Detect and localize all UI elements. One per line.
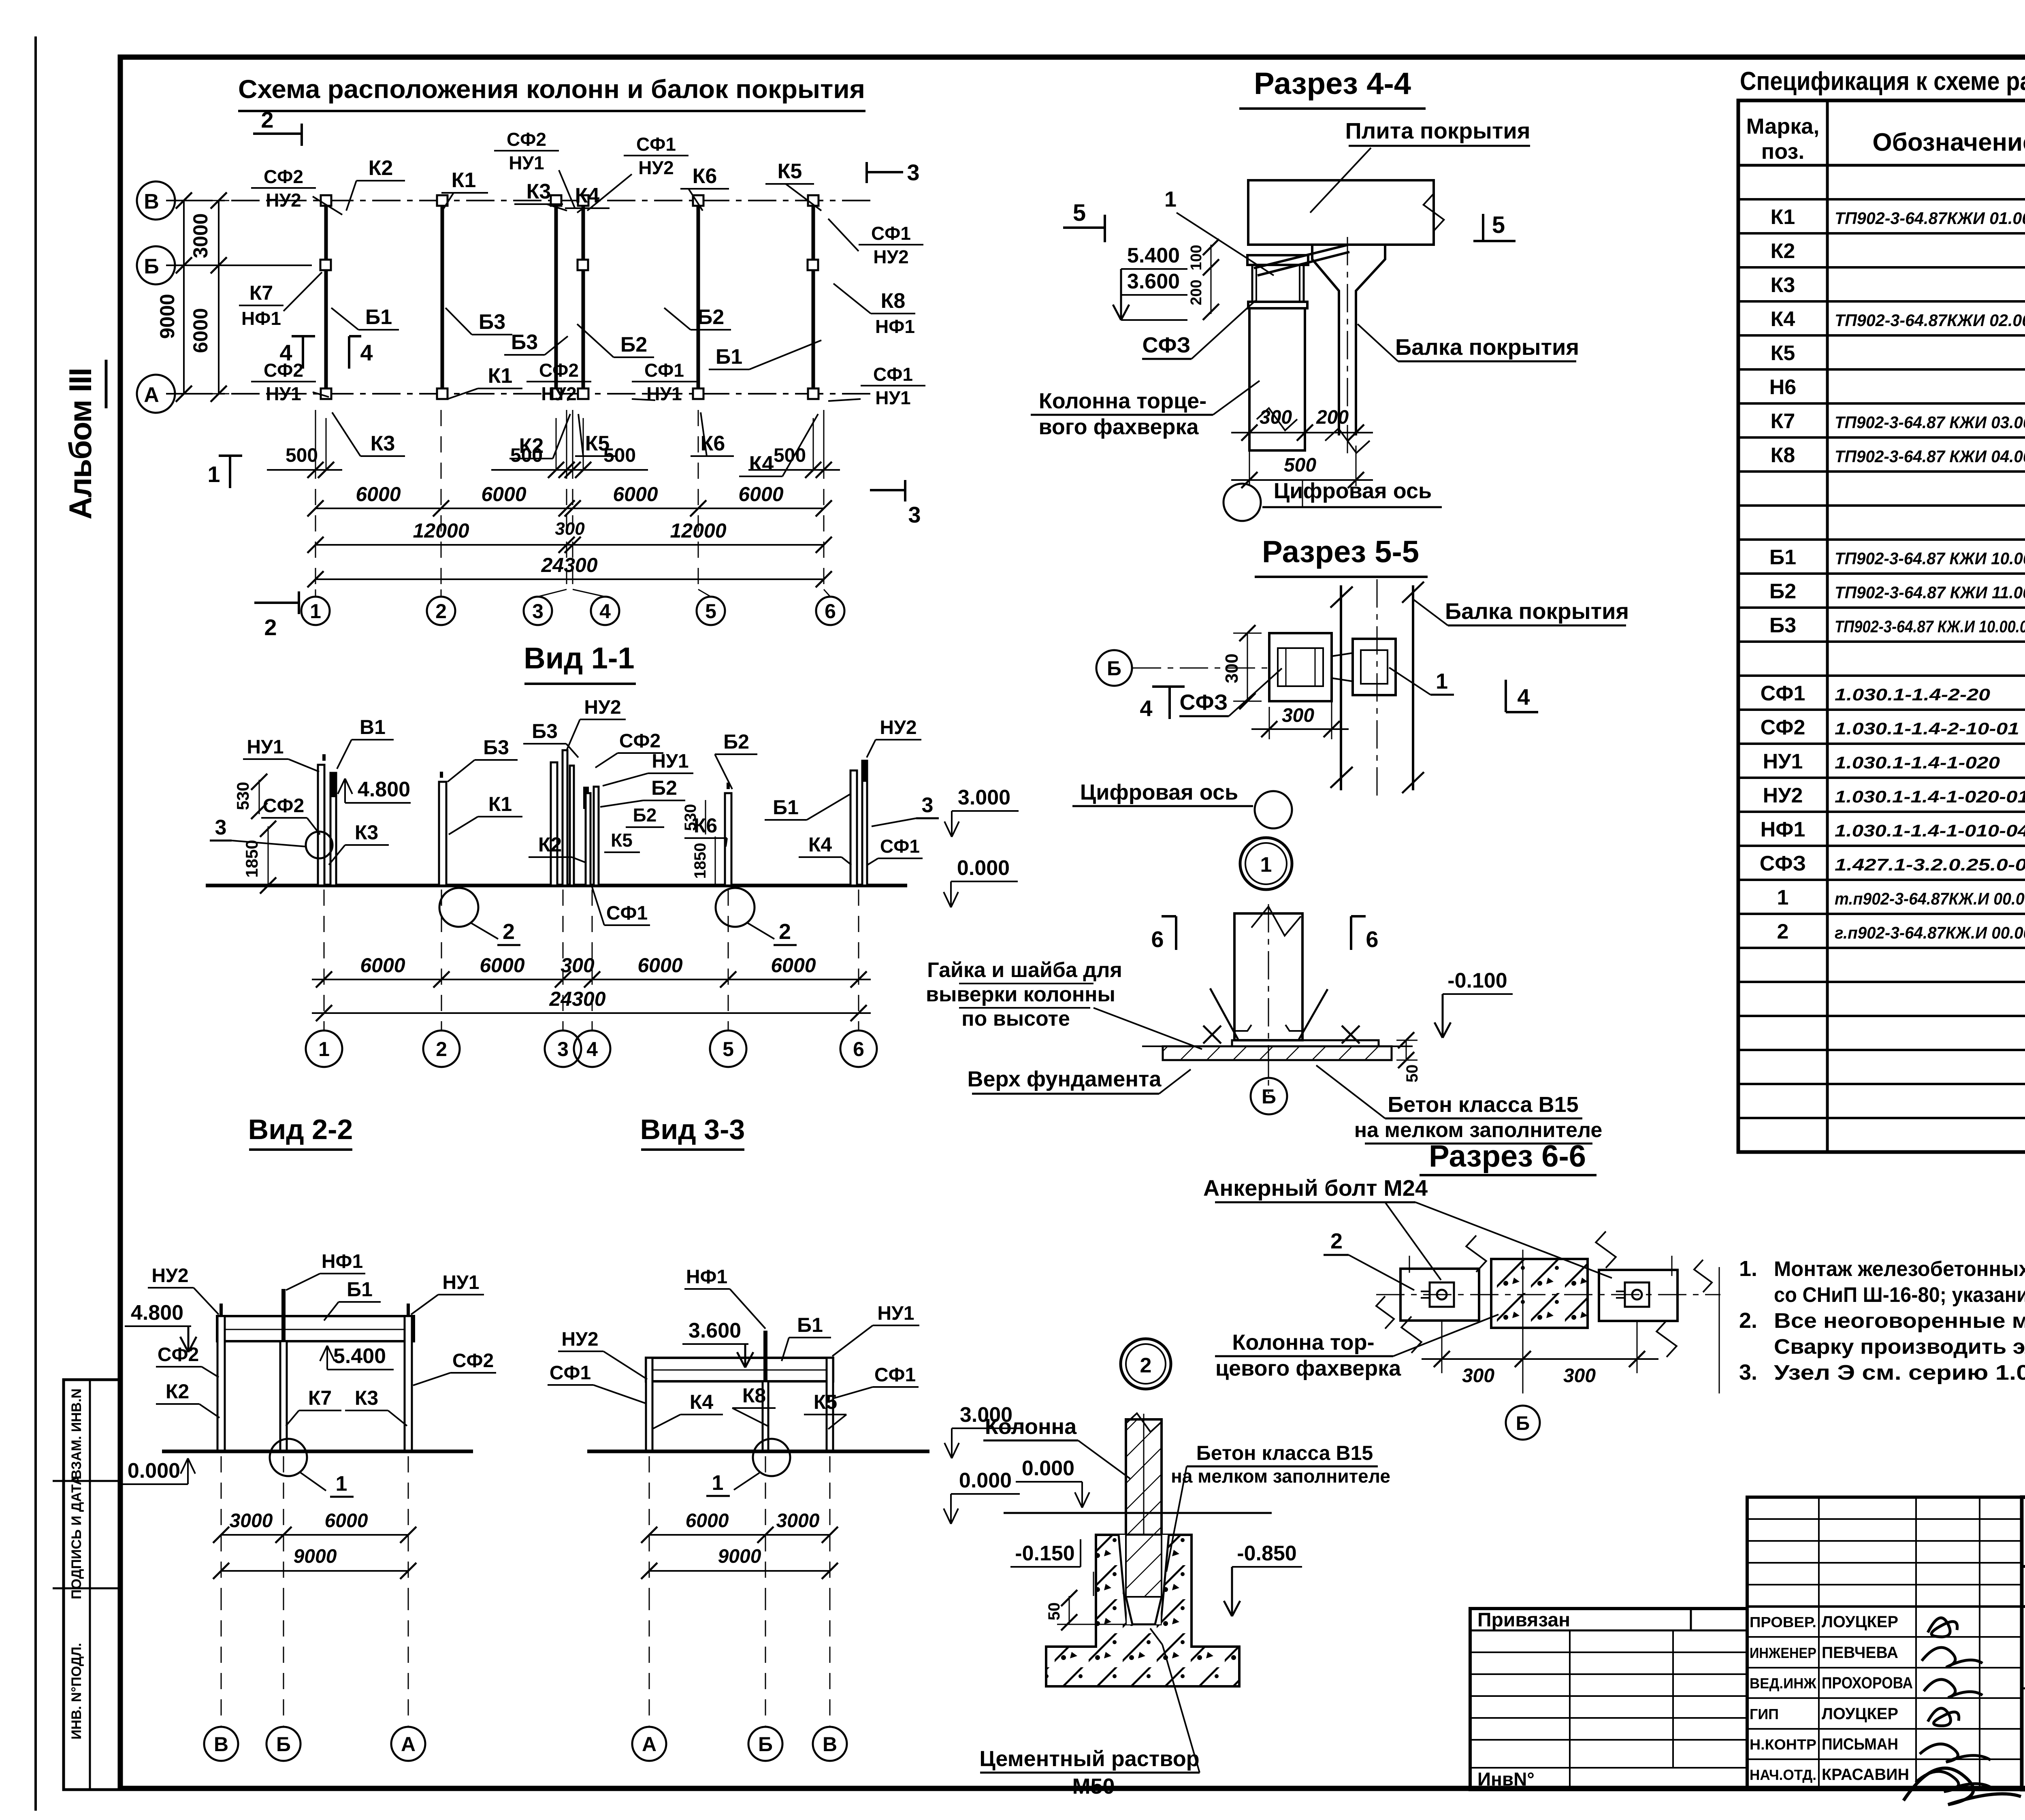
svg-text:на мелком заполнителе: на мелком заполнителе: [1354, 1118, 1603, 1142]
svg-text:Б2: Б2: [633, 804, 657, 826]
svg-text:24300: 24300: [541, 554, 597, 576]
svg-text:К1: К1: [1771, 205, 1795, 229]
svg-text:6000: 6000: [325, 1510, 368, 1532]
svg-text:НФ1: НФ1: [241, 308, 281, 329]
svg-text:1: 1: [336, 1472, 347, 1496]
svg-text:Б: Б: [276, 1733, 291, 1756]
svg-text:НАЧ.ОТД.: НАЧ.ОТД.: [1750, 1767, 1816, 1783]
svg-text:НУ1: НУ1: [1763, 750, 1803, 773]
svg-text:ПРОХОРОВА: ПРОХОРОВА: [1822, 1674, 1913, 1692]
svg-text:СФ2: СФ2: [264, 166, 303, 187]
svg-text:3.600: 3.600: [688, 1319, 741, 1342]
svg-text:200: 200: [1316, 407, 1349, 428]
svg-text:вого фахверка: вого фахверка: [1038, 415, 1199, 439]
svg-text:Плита покрытия: Плита покрытия: [1345, 118, 1530, 143]
svg-text:Бетон класса В15: Бетон класса В15: [1196, 1442, 1373, 1464]
svg-text:Альбом III: Альбом III: [62, 368, 98, 519]
svg-text:К3: К3: [371, 432, 395, 455]
svg-text:2: 2: [264, 614, 277, 640]
svg-text:Сварку производить электрода: Сварку производить электродами типа Э42Я…: [1774, 1335, 2025, 1359]
svg-text:К1: К1: [452, 169, 476, 192]
svg-text:ПИСЬМАН: ПИСЬМАН: [1822, 1735, 1898, 1753]
svg-text:2: 2: [435, 600, 447, 623]
svg-text:Б1: Б1: [773, 796, 799, 819]
svg-text:К6: К6: [693, 164, 717, 188]
svg-text:ПОДПИСЬ И ДАТА: ПОДПИСЬ И ДАТА: [69, 1475, 84, 1599]
svg-text:СФ2: СФ2: [539, 360, 579, 381]
svg-text:4: 4: [1517, 684, 1530, 710]
svg-text:4.800: 4.800: [131, 1301, 183, 1325]
svg-text:НУ1: НУ1: [509, 152, 544, 173]
svg-text:К5: К5: [778, 160, 802, 183]
svg-text:Б: Б: [144, 255, 159, 278]
svg-text:Цифровая ось: Цифровая ось: [1080, 780, 1238, 804]
svg-text:2: 2: [436, 1038, 447, 1060]
svg-text:Н.КОНТР: Н.КОНТР: [1750, 1736, 1816, 1753]
svg-text:НУ1: НУ1: [247, 736, 283, 758]
svg-text:Цементный раствор: Цементный раствор: [979, 1747, 1199, 1771]
svg-text:9000: 9000: [156, 294, 179, 339]
svg-text:К2: К2: [369, 156, 393, 180]
svg-text:А: А: [642, 1733, 657, 1756]
svg-text:0.000: 0.000: [959, 1469, 1012, 1492]
svg-text:ВЗАМ. ИНВ.N: ВЗАМ. ИНВ.N: [69, 1389, 84, 1480]
svg-text:Привязан: Привязан: [1477, 1609, 1570, 1631]
svg-text:2.: 2.: [1739, 1308, 1757, 1333]
svg-text:НФ1: НФ1: [322, 1251, 363, 1272]
svg-text:ИНЖЕНЕР: ИНЖЕНЕР: [1750, 1645, 1816, 1661]
svg-text:НФ1: НФ1: [875, 316, 915, 337]
svg-text:К8: К8: [1771, 444, 1795, 467]
svg-text:1.030.1-1.4-1-020: 1.030.1-1.4-1-020: [1835, 753, 2000, 772]
svg-text:2: 2: [1140, 1354, 1152, 1377]
svg-text:1: 1: [310, 600, 321, 623]
svg-text:6000: 6000: [356, 483, 401, 506]
svg-text:300: 300: [1260, 407, 1292, 428]
svg-text:6: 6: [825, 600, 836, 623]
svg-text:-0.850: -0.850: [1237, 1542, 1296, 1565]
svg-text:3.000: 3.000: [958, 786, 1010, 809]
svg-text:СФЗ: СФЗ: [1143, 333, 1191, 357]
svg-text:Узел Э см. серию 1.030. 1-1.: Узел Э см. серию 1.030. 1-1. 3-3-040.: [1774, 1361, 2025, 1385]
svg-text:1: 1: [207, 461, 220, 487]
svg-text:1: 1: [1777, 886, 1789, 909]
svg-text:Б3: Б3: [1769, 614, 1796, 637]
svg-text:1: 1: [1436, 669, 1448, 693]
svg-text:НУ2: НУ2: [1763, 784, 1803, 807]
svg-text:4: 4: [599, 600, 611, 623]
svg-text:6000: 6000: [481, 483, 526, 506]
svg-text:50: 50: [1403, 1065, 1421, 1083]
svg-text:ТП902-3-64.87 КЖИ 04.00.00.00: ТП902-3-64.87 КЖИ 04.00.00.00: [1835, 447, 2025, 466]
svg-text:поз.: поз.: [1761, 139, 1805, 164]
svg-text:300: 300: [1282, 705, 1314, 726]
svg-text:В1: В1: [360, 716, 386, 738]
svg-text:цевого фахверка: цевого фахверка: [1215, 1356, 1401, 1380]
svg-text:В: В: [214, 1733, 228, 1756]
svg-text:3: 3: [215, 816, 227, 839]
svg-text:300: 300: [1563, 1365, 1596, 1387]
svg-text:Разрез 6-6: Разрез 6-6: [1429, 1139, 1586, 1174]
svg-text:Б1: Б1: [347, 1278, 373, 1301]
svg-text:на мелком заполнителе: на мелком заполнителе: [1171, 1466, 1390, 1487]
svg-text:ПЕВЧЕВА: ПЕВЧЕВА: [1822, 1644, 1898, 1662]
svg-text:1850: 1850: [691, 843, 709, 879]
svg-text:1850: 1850: [242, 840, 261, 877]
svg-text:3.: 3.: [1739, 1360, 1757, 1385]
svg-text:СФ2: СФ2: [507, 129, 546, 150]
svg-text:1.030.1-1.4-2-10-01: 1.030.1-1.4-2-10-01: [1835, 719, 2019, 738]
svg-text:1.030.1-1.4-2-20: 1.030.1-1.4-2-20: [1835, 685, 1990, 704]
svg-text:К3: К3: [1771, 273, 1795, 297]
svg-text:ТП902-3-64.87 КЖ.И 10.00.00.00: ТП902-3-64.87 КЖ.И 10.00.00.00-01: [1835, 617, 2025, 636]
svg-text:К1: К1: [488, 793, 512, 815]
svg-text:К4: К4: [808, 833, 832, 856]
svg-text:50: 50: [1045, 1602, 1063, 1621]
svg-text:К5: К5: [585, 432, 610, 455]
svg-text:Балка покрытия: Балка покрытия: [1445, 598, 1629, 624]
svg-text:24300: 24300: [549, 988, 605, 1010]
svg-text:по высоте: по высоте: [961, 1007, 1070, 1031]
svg-text:3.600: 3.600: [1127, 270, 1180, 293]
svg-text:К8: К8: [881, 289, 906, 313]
svg-text:Б: Б: [1262, 1085, 1276, 1108]
svg-text:6: 6: [853, 1038, 864, 1060]
svg-text:Б1: Б1: [365, 305, 392, 329]
svg-text:КРАСАВИН: КРАСАВИН: [1822, 1766, 1909, 1784]
svg-text:СФ1: СФ1: [550, 1362, 591, 1384]
svg-text:5: 5: [1073, 200, 1086, 226]
svg-text:К4: К4: [690, 1391, 714, 1413]
svg-text:К4: К4: [1771, 307, 1795, 331]
svg-text:Балка покрытия: Балка покрытия: [1395, 334, 1579, 360]
svg-text:Вид 2-2: Вид 2-2: [248, 1114, 353, 1145]
svg-text:ВЕД.ИНЖ: ВЕД.ИНЖ: [1750, 1675, 1816, 1692]
svg-text:НУ2: НУ2: [584, 697, 621, 718]
svg-text:ИНВ. N°ПОДЛ.: ИНВ. N°ПОДЛ.: [69, 1643, 84, 1740]
svg-text:6000: 6000: [738, 483, 783, 506]
svg-text:ТП902-3-64.87КЖИ 01.00.00.00: ТП902-3-64.87КЖИ 01.00.00.00: [1835, 209, 2025, 228]
svg-text:СФ2: СФ2: [263, 795, 304, 817]
svg-text:ЛОУЦКЕР: ЛОУЦКЕР: [1822, 1613, 1898, 1631]
svg-text:1: 1: [1164, 187, 1177, 211]
svg-text:Колонна тор-: Колонна тор-: [1232, 1330, 1374, 1355]
svg-text:4: 4: [586, 1038, 598, 1060]
svg-text:Монтаж железобетонных констр: Монтаж железобетонных конструкций осущес…: [1774, 1257, 2025, 1281]
svg-text:5: 5: [705, 600, 716, 623]
svg-text:СФ1: СФ1: [874, 1364, 916, 1386]
svg-text:3: 3: [908, 502, 921, 527]
svg-text:НУ1: НУ1: [875, 387, 910, 408]
svg-text:выверки колонны: выверки колонны: [926, 983, 1115, 1006]
svg-text:СФ1: СФ1: [636, 134, 676, 155]
svg-text:Верх фундамента: Верх фундамента: [968, 1067, 1162, 1091]
svg-text:К5: К5: [1771, 341, 1795, 365]
svg-text:К8: К8: [742, 1384, 766, 1407]
svg-text:6000: 6000: [480, 954, 524, 977]
svg-text:В: В: [144, 190, 159, 213]
svg-text:М50: М50: [1072, 1774, 1115, 1799]
svg-text:СФ1: СФ1: [873, 364, 913, 385]
svg-text:Б1: Б1: [716, 345, 742, 369]
svg-text:Б3: Б3: [479, 310, 505, 334]
svg-text:т.п902-3-64.87КЖ.И 00.00.00.02: т.п902-3-64.87КЖ.И 00.00.00.02: [1835, 889, 2025, 908]
svg-text:НФ1: НФ1: [1761, 818, 1805, 841]
svg-text:К4: К4: [749, 452, 774, 476]
svg-text:СФ1: СФ1: [1761, 682, 1805, 705]
svg-text:Б3: Б3: [511, 331, 538, 354]
svg-text:0.000: 0.000: [1022, 1457, 1074, 1480]
svg-text:СФ1: СФ1: [871, 223, 911, 244]
svg-text:Б2: Б2: [620, 333, 647, 356]
svg-text:ТП902-3-64.87 КЖИ 11.00.00.00: ТП902-3-64.87 КЖИ 11.00.00.00: [1835, 583, 2025, 602]
svg-text:Б3: Б3: [483, 736, 509, 759]
svg-text:3: 3: [557, 1038, 569, 1060]
svg-text:300: 300: [1462, 1365, 1494, 1387]
svg-text:НУ2: НУ2: [880, 717, 917, 738]
svg-text:К7: К7: [1771, 410, 1795, 433]
svg-text:6: 6: [1151, 926, 1164, 952]
svg-text:Схема расположения колонн и ба: Схема расположения колонн и балок покрыт…: [238, 75, 865, 104]
svg-text:Б2: Б2: [697, 305, 724, 329]
svg-text:ПРОВЕР.: ПРОВЕР.: [1750, 1614, 1816, 1630]
svg-text:Анкерный болт М24: Анкерный болт М24: [1203, 1175, 1428, 1201]
svg-text:СФ2: СФ2: [452, 1350, 494, 1372]
svg-text:ГИП: ГИП: [1750, 1706, 1779, 1722]
svg-text:Марка,: Марка,: [1746, 114, 1820, 139]
svg-text:1.: 1.: [1739, 1257, 1757, 1281]
svg-text:Б2: Б2: [723, 730, 749, 753]
svg-text:300: 300: [555, 519, 585, 539]
svg-text:-0.150: -0.150: [1015, 1542, 1074, 1565]
svg-text:Цифровая ось: Цифровая ось: [1274, 479, 1432, 503]
svg-text:Б2: Б2: [1769, 580, 1796, 603]
svg-text:Н6: Н6: [1769, 376, 1796, 399]
svg-text:К4: К4: [575, 184, 600, 207]
svg-text:6: 6: [1366, 926, 1378, 952]
svg-text:НУ2: НУ2: [541, 383, 576, 404]
svg-text:1: 1: [1260, 853, 1272, 877]
svg-text:Гайка и шайба для: Гайка и шайба для: [927, 958, 1122, 982]
svg-text:Колонна: Колонна: [985, 1415, 1077, 1439]
svg-text:НУ1: НУ1: [266, 383, 301, 404]
svg-text:Все неоговоренные монтажные: Все неоговоренные монтажные швы принимат…: [1774, 1309, 2025, 1333]
svg-text:3: 3: [907, 160, 919, 185]
svg-text:4.800: 4.800: [358, 778, 410, 801]
svg-text:СФ2: СФ2: [619, 730, 661, 752]
svg-text:К5: К5: [814, 1391, 837, 1413]
svg-text:Обозначение: Обозначение: [1872, 128, 2025, 156]
svg-text:Разрез 5-5: Разрез 5-5: [1262, 535, 1419, 569]
svg-text:6000: 6000: [360, 954, 405, 977]
svg-text:3000: 3000: [189, 213, 212, 258]
svg-text:А: А: [144, 383, 159, 407]
svg-text:0.000: 0.000: [957, 856, 1010, 880]
svg-text:Разрез 4-4: Разрез 4-4: [1254, 66, 1411, 101]
svg-text:4: 4: [1140, 696, 1152, 721]
svg-text:ТП902-3-64.87КЖИ 02.00.00.00: ТП902-3-64.87КЖИ 02.00.00.00: [1835, 311, 2025, 330]
svg-text:300: 300: [1222, 653, 1242, 683]
svg-text:Б1: Б1: [1769, 546, 1796, 569]
svg-text:9000: 9000: [294, 1546, 337, 1567]
svg-text:Б: Б: [1107, 657, 1121, 680]
svg-text:К3: К3: [355, 1387, 378, 1409]
svg-text:1: 1: [318, 1038, 330, 1060]
svg-text:К1: К1: [488, 364, 513, 388]
svg-text:К3: К3: [526, 180, 551, 203]
svg-text:Вид 3-3: Вид 3-3: [640, 1114, 745, 1145]
svg-text:1.427.1-3.2.0.25.0-01: 1.427.1-3.2.0.25.0-01: [1835, 855, 2025, 874]
svg-text:12000: 12000: [670, 519, 726, 542]
svg-text:6000: 6000: [637, 954, 682, 977]
svg-text:СФ2: СФ2: [264, 360, 303, 381]
svg-text:В: В: [823, 1733, 837, 1756]
svg-text:2: 2: [1777, 920, 1789, 943]
svg-text:Б1: Б1: [797, 1314, 823, 1336]
svg-text:Б3: Б3: [532, 720, 558, 743]
svg-text:Вид 1-1: Вид 1-1: [524, 641, 634, 675]
svg-text:СФЗ: СФЗ: [1760, 852, 1806, 875]
svg-text:5: 5: [723, 1038, 734, 1060]
svg-text:1.030.1-1.4-1-010-04: 1.030.1-1.4-1-010-04: [1835, 821, 2025, 840]
svg-text:К2: К2: [519, 434, 544, 458]
svg-text:2: 2: [261, 107, 273, 132]
svg-text:К2: К2: [1771, 239, 1795, 263]
svg-text:К7: К7: [249, 282, 273, 304]
svg-text:г.п902-3-64.87КЖ.И 00.00.00.01: г.п902-3-64.87КЖ.И 00.00.00.01: [1835, 923, 2025, 942]
svg-text:СФ2: СФ2: [1761, 716, 1805, 739]
svg-text:НУ2: НУ2: [561, 1329, 598, 1350]
svg-text:ИнвN°: ИнвN°: [1477, 1769, 1535, 1790]
svg-text:НУ2: НУ2: [151, 1265, 188, 1287]
svg-text:НУ1: НУ1: [652, 751, 688, 772]
svg-text:со СНиП Ш-16-80; указаниями се: со СНиП Ш-16-80; указаниями серий 1.423-…: [1774, 1283, 2025, 1307]
svg-text:НУ2: НУ2: [266, 190, 301, 211]
svg-text:3000: 3000: [230, 1510, 273, 1532]
svg-text:СФ1: СФ1: [880, 836, 920, 857]
svg-text:12000: 12000: [413, 519, 469, 542]
svg-text:5.400: 5.400: [1127, 244, 1180, 267]
svg-text:6000: 6000: [686, 1510, 729, 1532]
svg-text:9000: 9000: [718, 1546, 761, 1567]
svg-text:500: 500: [286, 445, 318, 466]
svg-text:СФЗ: СФЗ: [1180, 690, 1228, 715]
svg-text:Б: Б: [758, 1733, 773, 1756]
svg-text:2: 2: [503, 920, 515, 944]
svg-text:ТП902-3-64.87 КЖИ 10.00.00.00: ТП902-3-64.87 КЖИ 10.00.00.00: [1835, 549, 2025, 568]
svg-text:6000: 6000: [613, 483, 658, 506]
svg-text:200: 200: [1188, 280, 1205, 305]
svg-text:2: 2: [779, 920, 791, 944]
svg-text:К7: К7: [308, 1387, 332, 1409]
svg-text:6000: 6000: [189, 308, 212, 353]
svg-text:6000: 6000: [771, 954, 816, 977]
svg-text:К2: К2: [538, 833, 562, 856]
svg-text:1: 1: [712, 1471, 724, 1495]
svg-text:530: 530: [233, 782, 252, 810]
svg-text:0.000: 0.000: [128, 1459, 180, 1483]
svg-text:К5: К5: [611, 830, 633, 851]
svg-text:Б2: Б2: [651, 777, 677, 799]
svg-text:Спецификация к схеме располо: Спецификация к схеме расположения колонн…: [1740, 66, 2025, 96]
svg-text:100: 100: [1188, 245, 1205, 270]
svg-text:Бетон класса В15: Бетон класса В15: [1388, 1092, 1578, 1117]
svg-text:СФ2: СФ2: [158, 1344, 199, 1366]
svg-text:СФ1: СФ1: [606, 903, 648, 924]
svg-text:ТП902-3-64.87 КЖИ 03.00.00.00: ТП902-3-64.87 КЖИ 03.00.00.00: [1835, 413, 2025, 432]
svg-text:1.030.1-1.4-1-020-01: 1.030.1-1.4-1-020-01: [1835, 787, 2025, 806]
svg-text:4: 4: [360, 340, 373, 365]
svg-text:НУ2: НУ2: [638, 157, 674, 178]
svg-text:3000: 3000: [776, 1510, 820, 1532]
svg-text:НУ1: НУ1: [442, 1272, 479, 1293]
svg-text:СФ1: СФ1: [644, 360, 684, 381]
svg-text:-0.100: -0.100: [1447, 969, 1507, 992]
svg-text:Колонна торце-: Колонна торце-: [1039, 389, 1206, 413]
svg-text:А: А: [401, 1733, 416, 1756]
svg-text:ЛОУЦКЕР: ЛОУЦКЕР: [1822, 1705, 1898, 1723]
svg-text:3: 3: [532, 600, 544, 623]
svg-text:НФ1: НФ1: [686, 1266, 727, 1288]
svg-text:Б: Б: [1516, 1413, 1530, 1434]
svg-text:3: 3: [922, 794, 934, 817]
svg-text:НУ1: НУ1: [877, 1303, 914, 1324]
svg-text:5.400: 5.400: [333, 1344, 386, 1368]
svg-text:2: 2: [1330, 1229, 1343, 1253]
svg-text:500: 500: [1284, 454, 1316, 476]
svg-text:НУ1: НУ1: [646, 383, 682, 404]
svg-text:К6: К6: [694, 814, 717, 837]
svg-text:К2: К2: [166, 1380, 189, 1403]
svg-text:К3: К3: [355, 821, 378, 844]
svg-text:НУ2: НУ2: [873, 246, 908, 267]
svg-text:5: 5: [1492, 212, 1505, 238]
svg-text:300: 300: [561, 954, 595, 977]
